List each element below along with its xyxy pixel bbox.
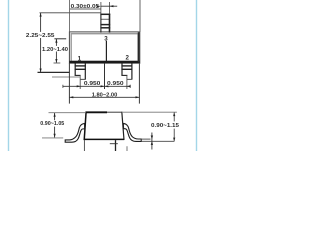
- dim 2.25~2.55 top extension line: [40, 12, 101, 14]
- gray pin-foot reference line: [52, 76, 81, 78]
- pin 3 lead (top view, top center): [100, 14, 110, 33]
- side body bottom edge: [84, 138, 124, 140]
- side body top edge thin part: [107, 111, 122, 113]
- dimension tick below side view: [110, 143, 118, 145]
- small mark below right foot: [126, 146, 128, 151]
- dim 0.950 dimension line: [63, 85, 131, 87]
- svg-text:1.80~2.00: 1.80~2.00: [92, 92, 118, 98]
- dim text 1.80~2.00: [91, 91, 118, 97]
- dim 0.30 extension line right (pin3 right edge up): [109, 2, 111, 14]
- dim 0.30 dimension line and right tail: [101, 5, 117, 7]
- dim 2.25~2.55 down arrowhead: [40, 69, 42, 73]
- pin 3 center extension line below body: [104, 63, 106, 89]
- body bottom thick edge (top view): [69, 61, 139, 63]
- dim 0.30 extension line left (pin3 left edge up): [100, 2, 102, 14]
- dim 0.950 left tail tick: [62, 85, 64, 88]
- dim 1.20~1.40 dimension line: [55, 39, 57, 63]
- dim 2.25~2.55 dimension line lower: [40, 38, 42, 72]
- dim 0.950 right tail tick: [129, 85, 131, 88]
- svg-text:0.90~1.15: 0.90~1.15: [151, 123, 179, 129]
- dim 0.950 right arrowhead: [127, 85, 131, 87]
- table border right: [196, 0, 198, 151]
- svg-text:1: 1: [78, 55, 82, 62]
- dim 0.30 right arrowhead: [110, 5, 114, 7]
- dim 1.80~2.00 right extension line: [138, 63, 140, 103]
- center extension line below side view: [115, 140, 117, 151]
- dim 0.90~1.05 dimension line upper: [54, 113, 56, 120]
- seating plane extension line: [141, 140, 174, 142]
- dim text 0.950 right: [108, 80, 125, 85]
- dim 0.90~1.15 down arrowhead: [173, 138, 175, 142]
- body left edge extended up: [68, 0, 70, 33]
- pin 1 center extension line: [79, 75, 81, 89]
- dim 1.80~2.00 arrowheads: [70, 96, 74, 98]
- dim 0.90~1.15 dimension line lower: [173, 129, 175, 142]
- dim 0.90~1.05 up arrowhead: [54, 113, 56, 117]
- svg-text:0.90~1.05: 0.90~1.05: [40, 121, 64, 127]
- right foot top extension line: [141, 138, 150, 140]
- body right edge extended up: [139, 0, 141, 32]
- pin 1 lead (top view, bottom left): [75, 63, 86, 79]
- body inner gray outline (top view): [71, 34, 138, 62]
- dim 2.25~2.55 dimension line upper: [40, 13, 42, 32]
- dim 0.90~1.15 top extension line: [122, 111, 177, 113]
- dim 0.90~1.15 up arrowhead: [173, 112, 175, 116]
- dim 1.20~1.40 down arrowhead: [55, 59, 57, 63]
- page background: [0, 0, 212, 151]
- dim 1.20~1.40 bottom extension line: [54, 62, 61, 64]
- svg-text:3: 3: [104, 36, 108, 43]
- dim 1.80~2.00 left extension line: [68, 63, 70, 103]
- dim 0.950 left arrowhead: [77, 85, 81, 87]
- dim 0.90~1.05 bottom extension line: [42, 137, 63, 139]
- body left edge extension down: [83, 140, 85, 151]
- side body top edge thick part: [86, 111, 107, 113]
- dim 1.20~1.40 top tick: [54, 38, 66, 40]
- dim 0.90~1.05 dimension line lower: [54, 127, 56, 138]
- dim 0.90~1.05 top extension line: [49, 112, 86, 114]
- dim 2.25~2.55 bottom reference line: [38, 71, 70, 73]
- svg-text:0.950: 0.950: [84, 81, 101, 87]
- dim 0.30 leader underline: [70, 8, 101, 10]
- svg-text:1.20~1.40: 1.20~1.40: [42, 47, 68, 53]
- dim 0.90~1.05 down arrowhead: [54, 134, 56, 138]
- dim 2.25~2.55 up arrowhead: [40, 13, 42, 17]
- side body right edge: [122, 112, 124, 140]
- svg-text:0.30±0.05: 0.30±0.05: [71, 4, 100, 10]
- svg-text:2: 2: [125, 55, 129, 62]
- body right thick edge (top view): [138, 32, 140, 62]
- dim text 2.25~2.55: [25, 32, 55, 38]
- body outer outline (top view): [69, 32, 139, 63]
- dim 0.30 left arrowhead: [97, 5, 101, 7]
- dim 0.950 mid arrowheads: [101, 85, 105, 87]
- side body left edge: [84, 112, 86, 141]
- dim 0.90~1.15 dimension line upper: [173, 112, 175, 121]
- lead thickness dim line with outside arrows: [151, 133, 153, 150]
- pin 2 center extension line: [126, 75, 128, 89]
- left gull-wing lead (side view): [65, 123, 84, 142]
- right gull-wing lead (side view): [123, 123, 141, 141]
- dim text 0.950 left: [83, 80, 100, 85]
- svg-text:0.950: 0.950: [107, 81, 124, 87]
- dim 1.80~2.00 dimension line: [69, 96, 139, 98]
- pin 3 center line into body: [105, 41, 107, 62]
- dim text 1.20~1.40: [42, 46, 69, 52]
- pin 2 lead (top view, bottom right): [121, 63, 132, 79]
- table border left: [8, 0, 10, 151]
- dim 1.20~1.40 up arrowhead: [55, 39, 57, 43]
